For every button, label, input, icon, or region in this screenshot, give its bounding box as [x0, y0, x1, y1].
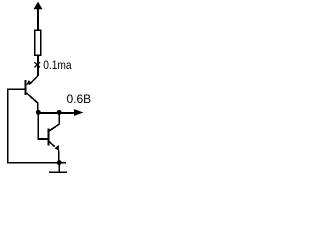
svg-text:0.1ma: 0.1ma — [43, 58, 72, 72]
svg-text:0.6B: 0.6B — [67, 92, 92, 106]
